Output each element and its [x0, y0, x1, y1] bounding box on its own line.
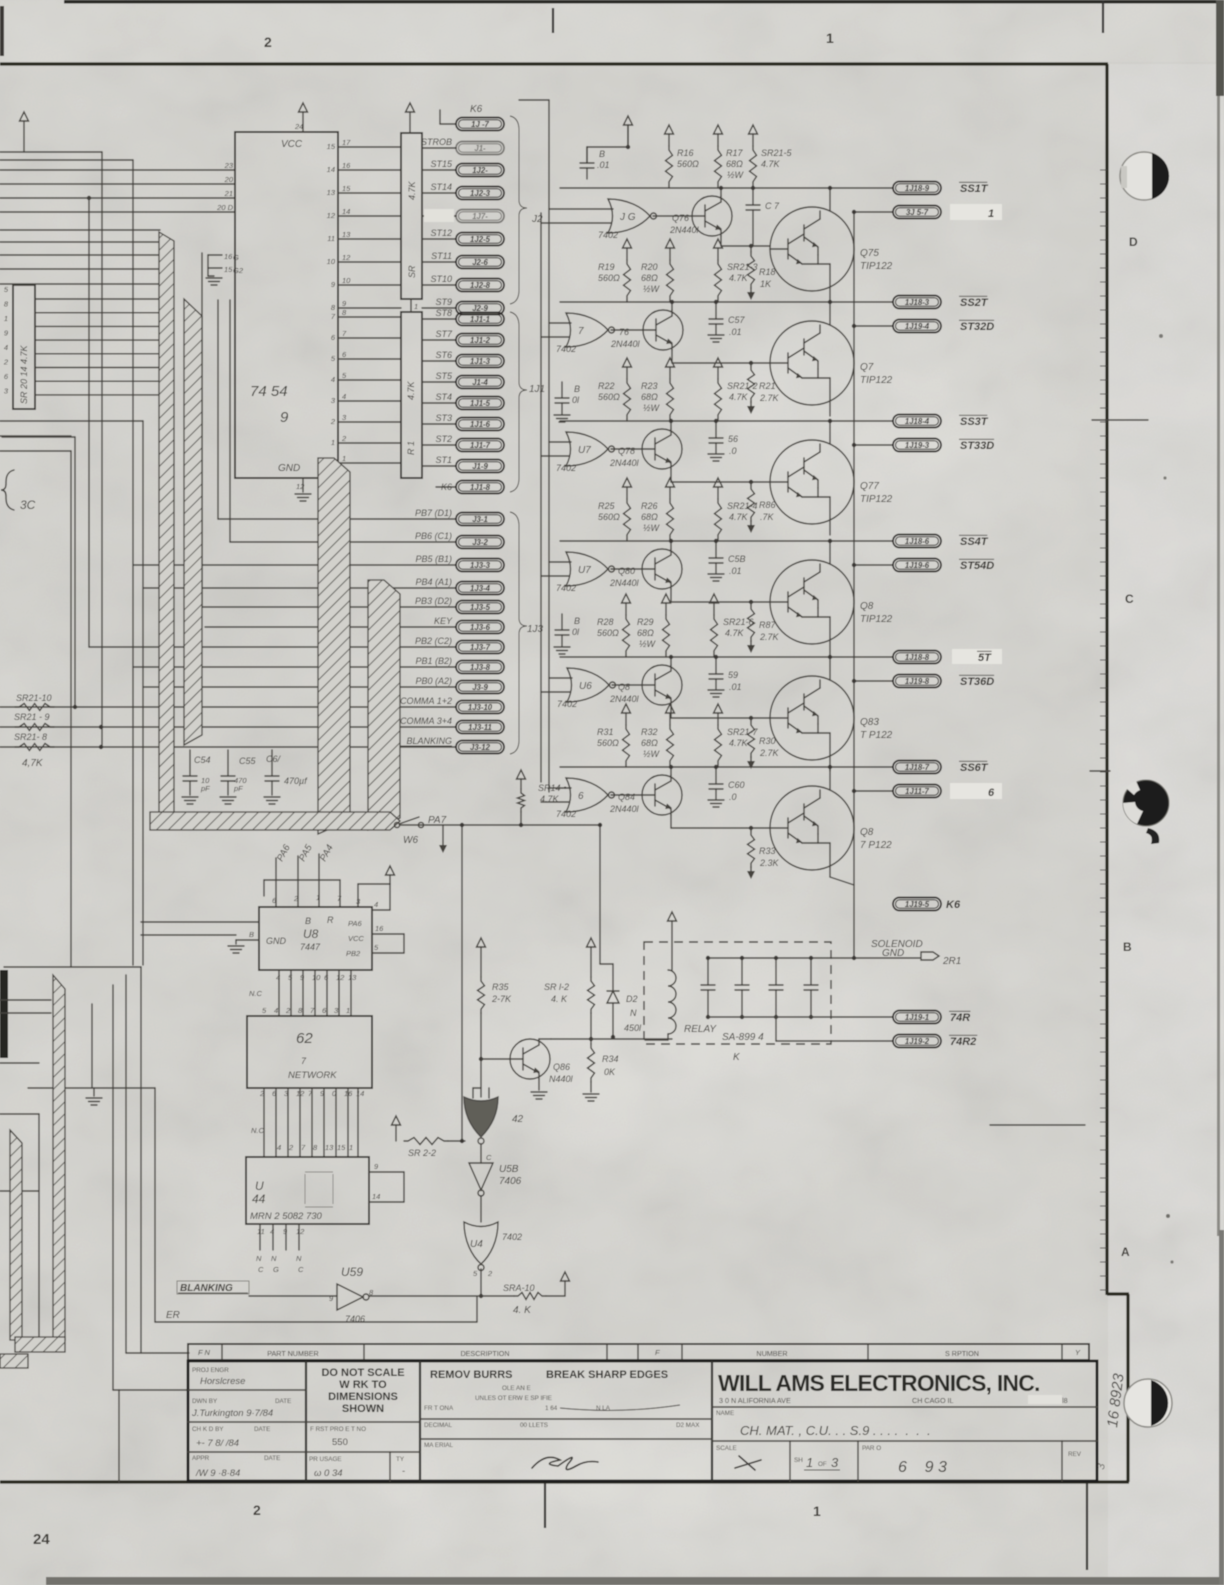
svg-text:ST8: ST8: [435, 308, 452, 318]
SIP SR2 top wire: [410, 299, 412, 312]
capacitor C57 row2: [715, 302, 717, 319]
74154 pin 2 wire (lower): [338, 442, 401, 444]
svg-text:2: 2: [330, 417, 336, 426]
svg-text:TIP122: TIP122: [860, 494, 893, 505]
svg-text:Q83: Q83: [860, 717, 879, 728]
output connector 1J19-3 ST33D: [854, 444, 893, 446]
hatched ribbon vertical band 3: [368, 580, 400, 830]
transistor Q80 2N440l row4: [611, 568, 642, 570]
resistor R30 2.7K row5: [749, 716, 753, 720]
wire emitter row2: [671, 350, 673, 363]
svg-text:C: C: [258, 1265, 264, 1274]
svg-text:ST54D: ST54D: [960, 560, 994, 572]
connector pin 1J3-8: [456, 661, 504, 674]
svg-text:7402: 7402: [556, 583, 576, 593]
svg-text:1J3-5: 1J3-5: [470, 603, 491, 612]
SIP resistor pack SR20: [13, 285, 35, 409]
svg-text:DATE: DATE: [254, 1426, 270, 1433]
svg-text:K6: K6: [470, 104, 483, 115]
svg-text:C55: C55: [239, 756, 257, 766]
wire darlington emitter row1: [829, 287, 831, 302]
svg-text:PA6: PA6: [348, 919, 362, 928]
wire into 3C box: [0, 435, 71, 437]
relay coil K: [668, 970, 676, 1034]
svg-text:J1-9: J1-9: [472, 462, 488, 471]
wire PB2 (C2): [89, 646, 456, 648]
hatched band bottom edge: [0, 1354, 28, 1368]
hatched band inner vertical: [53, 975, 65, 1340]
svg-text:B: B: [1123, 940, 1132, 954]
svg-text:16: 16: [375, 924, 384, 933]
wire into ribbon y242: [0, 241, 162, 243]
resistor R20 row2: [666, 239, 675, 248]
svg-text:7: 7: [578, 326, 584, 337]
svg-text:PB1 (B2): PB1 (B2): [415, 656, 452, 666]
connector pin 1J1-6: [422, 423, 456, 425]
svg-text:1J3-7: 1J3-7: [470, 643, 491, 652]
connector pin 1J3-7: [456, 641, 504, 654]
svg-text:1J3-4: 1J3-4: [470, 584, 491, 593]
U8 power arrow: [386, 866, 395, 875]
wire darlington collector row6: [829, 767, 831, 790]
svg-text:C6/: C6/: [266, 754, 282, 764]
vertical bus x218: [217, 300, 219, 519]
wire COMMA 1+2: [0, 706, 456, 708]
wire PB5 (B1): [133, 564, 456, 566]
svg-text:2-7K: 2-7K: [491, 994, 512, 1004]
wire A20 to 74154: [0, 183, 235, 185]
brace J2: [510, 116, 527, 304]
svg-text:R23: R23: [641, 381, 658, 391]
svg-text:½W: ½W: [639, 639, 657, 649]
resistor R21 2.7K row2: [749, 361, 753, 365]
gate inputs row2: [549, 322, 571, 324]
svg-text:PART NUMBER: PART NUMBER: [267, 1349, 319, 1358]
svg-text:470µf: 470µf: [284, 776, 308, 786]
cut component outer top: [4, 966, 141, 968]
svg-text:R86: R86: [759, 500, 776, 510]
svg-text:7402: 7402: [556, 809, 576, 819]
svg-text:1J18-4: 1J18-4: [905, 417, 930, 426]
connector pin 1J3-10: [456, 701, 504, 714]
svg-text:.01: .01: [729, 682, 742, 692]
svg-text:1J1-2: 1J1-2: [470, 336, 491, 345]
margin speck 1: [1159, 334, 1163, 338]
wire PB1 (B2): [133, 666, 456, 668]
resistor R28 row5: [622, 594, 631, 603]
wire KEY: [205, 626, 456, 628]
svg-text:4.7K: 4.7K: [407, 180, 417, 200]
cut component inner rect: [0, 1113, 39, 1115]
svg-text:J3-2: J3-2: [472, 538, 488, 547]
IC U1 74154 body: [235, 132, 338, 478]
cut component mid vertical: [112, 985, 114, 1390]
wire W6 branch vertical: [461, 825, 463, 1141]
wire emitter row3: [670, 469, 672, 482]
wire pair into U8 area b: [141, 934, 236, 936]
wire stub left a: [0, 999, 51, 1001]
connector pin J3-1: [456, 513, 504, 526]
svg-text:7402: 7402: [556, 344, 576, 354]
svg-text:U6: U6: [579, 681, 592, 692]
svg-text:Q84: Q84: [618, 792, 635, 802]
power transistor Q8 7 P122 row6: [770, 786, 854, 870]
U44 right pins: [369, 1171, 404, 1173]
power arrow SRA-10: [561, 1272, 570, 1281]
svg-text:3 0 N ALIFORNIA AVE: 3 0 N ALIFORNIA AVE: [719, 1396, 791, 1405]
resistor R17 row1: [714, 125, 723, 134]
svg-text:KEY: KEY: [434, 616, 453, 626]
svg-text:4.7K: 4.7K: [729, 392, 749, 402]
svg-text:2N440l: 2N440l: [609, 694, 640, 704]
svg-text:68Ω: 68Ω: [641, 392, 658, 402]
resistor SR14-1 4.7K: [517, 770, 526, 779]
svg-text:D: D: [1129, 235, 1138, 249]
svg-text:7402: 7402: [556, 463, 576, 473]
svg-text:1J1: 1J1: [529, 384, 545, 395]
output connector 1J11-7 6: [854, 790, 893, 792]
vertical bus x102: [101, 152, 103, 747]
svg-text:1: 1: [349, 1143, 353, 1152]
svg-text:9: 9: [280, 409, 289, 426]
svg-text:SR21-7: SR21-7: [727, 727, 759, 737]
svg-text:SR 2-2: SR 2-2: [408, 1148, 436, 1158]
svg-text:R16: R16: [677, 148, 694, 158]
resistor R32 row6: [666, 704, 675, 713]
capacitor B0l row5 input: [561, 614, 563, 630]
brace 1J1: [510, 312, 527, 492]
svg-text:SCALE: SCALE: [716, 1445, 737, 1452]
connector pin 1J2-3: [422, 192, 456, 194]
wire darlington collector row2: [829, 302, 831, 325]
svg-text:R35: R35: [492, 982, 510, 992]
bus elbow to title y1353: [126, 1352, 189, 1354]
svg-text:ST10: ST10: [430, 274, 452, 284]
relay capacitor 4: [810, 958, 812, 985]
connector pin 1J1-7: [422, 444, 456, 446]
62 to U44 wires: [263, 1088, 265, 1157]
svg-text:ST2: ST2: [435, 434, 452, 444]
svg-text:REV: REV: [1068, 1451, 1082, 1458]
resistor SR21-8: [15, 744, 54, 751]
svg-text:1J -7: 1J -7: [471, 120, 489, 129]
svg-text:1J2-8: 1J2-8: [470, 281, 491, 290]
svg-text:1: 1: [806, 1455, 813, 1470]
connector pin 1J -7: [440, 123, 456, 125]
resistor SR21-7 row6: [714, 704, 723, 713]
ground under 74154: [295, 493, 311, 495]
power transistor Q77 TIP122 row3: [770, 440, 854, 524]
title block col dividers: [305, 1361, 307, 1481]
gate input bus vertical B: [540, 213, 542, 782]
wire emitter row5: [670, 705, 672, 718]
svg-text:1J19-4: 1J19-4: [905, 322, 930, 331]
svg-text:B: B: [305, 916, 311, 926]
svg-text:3C: 3C: [20, 498, 36, 512]
svg-text:PR USAGE: PR USAGE: [309, 1456, 342, 1463]
output connector 1J19-6 ST54D: [854, 564, 893, 566]
svg-text:.7K: .7K: [760, 512, 775, 522]
cut component inner line b: [0, 1190, 39, 1192]
svg-text:4. K: 4. K: [551, 994, 568, 1004]
svg-text:K6: K6: [946, 899, 961, 911]
svg-text:2: 2: [264, 34, 272, 50]
svg-text:R18: R18: [759, 267, 776, 277]
resistor R16 row1: [665, 125, 674, 134]
svg-text:DATE: DATE: [264, 1455, 280, 1462]
flag 2R1: [921, 952, 939, 960]
binder hole bottom: [1124, 1379, 1172, 1427]
wire PB4 (A1): [143, 587, 456, 589]
svg-text:Q78: Q78: [618, 446, 635, 456]
svg-text:1J11-7: 1J11-7: [905, 787, 929, 796]
NOR gate U5 7402 row5: [567, 668, 609, 702]
svg-text:MRN 2 5082 730: MRN 2 5082 730: [250, 1211, 323, 1222]
resistor R86 .7K row3: [749, 480, 753, 484]
svg-text:SS4T: SS4T: [960, 536, 989, 548]
svg-text:PB4 (A1): PB4 (A1): [415, 577, 452, 587]
ground under Q86: [531, 1091, 547, 1093]
svg-text:DATE: DATE: [275, 1398, 291, 1405]
wire output row6: [560, 766, 893, 768]
wire collector row6: [670, 767, 672, 775]
svg-text:450l: 450l: [624, 1023, 642, 1033]
svg-text:2: 2: [293, 894, 299, 903]
name rule: [712, 1440, 1097, 1442]
U44 bottom pins: [259, 1224, 261, 1250]
ground under R34: [583, 1093, 599, 1095]
ground arrow row6: [747, 871, 755, 879]
svg-text:R22: R22: [598, 381, 615, 391]
svg-text:SS1T: SS1T: [960, 183, 989, 195]
svg-text:NAME: NAME: [716, 1410, 734, 1417]
svg-text:F RST PRO E T NO: F RST PRO E T NO: [310, 1426, 366, 1433]
svg-text:4.7K: 4.7K: [729, 273, 749, 283]
svg-text:BLANKING: BLANKING: [180, 1283, 233, 1294]
svg-text:D2 MAX: D2 MAX: [676, 1422, 700, 1429]
svg-text:N: N: [630, 1008, 637, 1018]
tol rule 1: [420, 1418, 712, 1420]
svg-text:2N440l: 2N440l: [610, 339, 641, 349]
wire darlington emitter row3: [829, 520, 831, 535]
svg-text:1: 1: [316, 893, 320, 902]
output connector 1J19-1 74R: [893, 1011, 941, 1024]
wire U4 output: [480, 1269, 482, 1296]
ground arrow row1: [747, 292, 755, 300]
wire PA6 from bus: [275, 858, 277, 907]
resistor SR21-3 row2: [714, 239, 723, 248]
connector pin J3-2: [456, 536, 504, 549]
svg-text:15: 15: [327, 142, 336, 151]
connector pin 1J1-2: [422, 339, 456, 341]
output connector 1J18-3 SS2T: [893, 296, 941, 309]
svg-text:2N440l: 2N440l: [609, 578, 640, 588]
74154 pin 12 wire: [338, 215, 401, 217]
wire emitter row1: [720, 236, 722, 246]
svg-text:1J18-6: 1J18-6: [905, 537, 930, 546]
svg-text:WILL AMS ELECTRONICS, INC.: WILL AMS ELECTRONICS, INC.: [718, 1370, 1040, 1396]
svg-text:1J2-5: 1J2-5: [470, 235, 491, 244]
connector pin 1J1-5: [422, 402, 456, 404]
top edge black strip: [64, 0, 1224, 4]
svg-text:0l: 0l: [572, 395, 580, 405]
resistor R22 row3: [623, 358, 632, 367]
svg-text:GND: GND: [278, 463, 300, 474]
wire into ribbon y269: [0, 268, 166, 270]
svg-text:Q76: Q76: [672, 213, 689, 223]
svg-text:R17: R17: [726, 148, 744, 158]
svg-text:FR T ONA: FR T ONA: [424, 1405, 454, 1412]
svg-text:U8: U8: [303, 927, 319, 941]
svg-text:3J 5-7: 3J 5-7: [906, 208, 929, 217]
connector pin 1J1-3: [422, 360, 456, 362]
74154 VCC pin24: [299, 103, 308, 112]
svg-text:68Ω: 68Ω: [641, 273, 658, 283]
svg-text:1J19-8: 1J19-8: [905, 677, 930, 686]
svg-text:Q86: Q86: [553, 1062, 570, 1072]
SIP resistor pack SR1 4.7K: [401, 133, 422, 299]
svg-text:A: A: [1121, 1245, 1130, 1259]
wire PA5 from bus: [297, 856, 299, 907]
resistor SR21-10: [15, 704, 54, 711]
resistor R26 row4: [666, 478, 675, 487]
74154 pin 7 wire (lower): [338, 337, 401, 339]
svg-text:DESCRIPTION: DESCRIPTION: [460, 1349, 509, 1358]
IC U8 7447 body: [259, 907, 372, 970]
svg-text:PB2 (C2): PB2 (C2): [415, 636, 452, 646]
svg-text:SS2T: SS2T: [960, 297, 989, 309]
svg-text:J G: J G: [619, 212, 636, 223]
wire 74R line: [812, 1016, 893, 1018]
wire W6 down to diode node: [599, 825, 601, 964]
resistor R29 row5: [662, 594, 671, 603]
U44 segment sketch: [305, 1172, 333, 1207]
svg-text:R25: R25: [598, 501, 616, 511]
svg-text:PB0 (A2): PB0 (A2): [415, 676, 452, 686]
wire Q86 emitter ground: [538, 1079, 540, 1090]
connector pin J3-9: [456, 681, 504, 694]
svg-text:R87: R87: [759, 620, 777, 630]
svg-text:S RPTION: S RPTION: [945, 1349, 979, 1358]
U8 right pins: [372, 909, 390, 911]
svg-text:ST14: ST14: [430, 182, 452, 192]
wire emitter row6: [670, 815, 672, 828]
svg-text:1K: 1K: [760, 279, 772, 289]
svg-text:0l: 0l: [572, 627, 580, 637]
wire into ribbon y284: [0, 283, 168, 285]
cut component inner right: [125, 975, 127, 1353]
zone divider D/C: [1092, 419, 1148, 421]
svg-text:4: 4: [274, 1006, 278, 1015]
wire COMMA 3+4: [0, 726, 456, 728]
gate inputs row3: [549, 441, 571, 443]
svg-text:R31: R31: [597, 727, 614, 737]
svg-text:SHOWN: SHOWN: [342, 1403, 384, 1415]
svg-text:N: N: [271, 1254, 277, 1263]
svg-text:4: 4: [374, 900, 378, 909]
svg-text:G2: G2: [233, 266, 244, 275]
svg-text:1: 1: [826, 30, 834, 46]
capacitor C5B row4: [715, 541, 717, 558]
svg-text:N.C: N.C: [249, 989, 263, 998]
svg-text:59: 59: [728, 670, 738, 680]
svg-text:J1-4: J1-4: [472, 378, 488, 387]
74154 pin 14 wire: [338, 169, 401, 171]
gate inputs row4: [549, 561, 571, 563]
svg-text:SR21-6: SR21-6: [723, 617, 754, 627]
wire output row3: [560, 420, 893, 422]
margin speck 2: [1163, 476, 1166, 479]
svg-text:21: 21: [224, 189, 233, 198]
svg-text:TY: TY: [396, 1456, 405, 1463]
svg-text:R33: R33: [759, 846, 776, 856]
svg-text:2: 2: [487, 1269, 493, 1278]
svg-text:13: 13: [348, 973, 357, 982]
svg-text:SR21 - 9: SR21 - 9: [14, 712, 50, 722]
relay capacitor 1: [707, 958, 709, 985]
wire collector row1: [720, 188, 722, 196]
svg-text:.0: .0: [729, 792, 737, 802]
svg-text:4: 4: [276, 973, 280, 982]
svg-text:PB7 (D1): PB7 (D1): [415, 508, 452, 518]
svg-text:½W: ½W: [643, 284, 661, 294]
gate input bus vertical A: [548, 100, 550, 792]
svg-text:4.7K: 4.7K: [729, 512, 749, 522]
svg-text:ω 0 34: ω 0 34: [314, 1468, 343, 1479]
resistor R31 row6: [622, 704, 631, 713]
svg-text:G: G: [273, 1265, 279, 1274]
svg-text:4.7K: 4.7K: [725, 628, 745, 638]
svg-text:W RK TO: W RK TO: [339, 1379, 387, 1391]
svg-text:1J18-9: 1J18-9: [905, 184, 930, 193]
wire darlington emitter row6: [829, 866, 831, 877]
svg-text:1: 1: [813, 1503, 821, 1519]
svg-text:SR21-2: SR21-2: [727, 381, 758, 391]
svg-text:F: F: [655, 1348, 660, 1357]
whiteout patch ST13: [424, 209, 454, 222]
svg-text:62: 62: [296, 1030, 313, 1047]
gate inputs row6: [549, 787, 571, 789]
output connector 1J19-5 K6: [893, 898, 941, 911]
wire A23 to 74154: [0, 169, 235, 171]
svg-text:K6: K6: [441, 482, 452, 492]
svg-text:R21: R21: [759, 381, 776, 391]
74154 pin 11 wire: [338, 238, 401, 240]
74154 pin 4 wire (lower): [338, 400, 401, 402]
svg-text:2R1: 2R1: [942, 956, 961, 967]
zone tick bottom right: [1086, 1483, 1088, 1570]
cut component outer right: [140, 967, 142, 1353]
svg-text:ST5: ST5: [435, 371, 453, 381]
svg-text:UNLES OT ERW E SP IFIE: UNLES OT ERW E SP IFIE: [475, 1395, 552, 1402]
svg-text:N LA: N LA: [596, 1405, 611, 1412]
connector pin 1J2-5: [422, 238, 456, 240]
svg-text:74R: 74R: [950, 1012, 970, 1024]
svg-text:J2-9: J2-9: [472, 304, 488, 313]
74154 pin 5 wire (lower): [338, 379, 401, 381]
svg-text:.01: .01: [729, 566, 742, 576]
wire emitter row4: [670, 589, 672, 602]
margin speck 3: [1166, 1214, 1170, 1218]
vertical bus x133: [132, 160, 134, 965]
svg-text:2: 2: [3, 358, 9, 367]
tol rule 2: [420, 1438, 712, 1440]
svg-text:DO NOT SCALE: DO NOT SCALE: [321, 1367, 404, 1379]
svg-text:C5B: C5B: [728, 554, 746, 564]
power transistor Q75 TIP122 row1: [770, 207, 854, 291]
74154 pin 15 wire: [338, 146, 401, 148]
vertical bus x230: [229, 300, 231, 542]
